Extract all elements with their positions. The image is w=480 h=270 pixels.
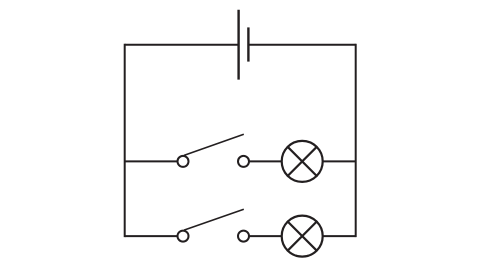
wire right rail [355,44,357,237]
switch S1 contact right [238,156,249,167]
lamp L2 circle [282,216,323,257]
lamp L1 circle [282,141,323,182]
wire bottom center [249,235,282,237]
wire left rail [124,44,126,237]
wire middle branch left [125,160,178,162]
wire middle branch right [323,160,356,162]
switch S1 blade [184,134,244,155]
wire top-left (battery + to left rail) [125,44,239,46]
wire bottom-left [125,235,178,237]
switch S2 contact left [178,231,189,242]
switch S1 contact left [178,156,189,167]
lamp L1 cross [287,146,317,176]
lamp L2 cross [287,221,317,251]
wire middle branch center [249,160,282,162]
battery B1 long plate (+) [237,10,239,80]
wire bottom-right [323,235,356,237]
switch S2 blade [184,209,244,230]
battery B1 short plate (-) [247,27,249,61]
switch S2 contact right [238,231,249,242]
wire top-right (battery - to right rail) [248,44,355,46]
